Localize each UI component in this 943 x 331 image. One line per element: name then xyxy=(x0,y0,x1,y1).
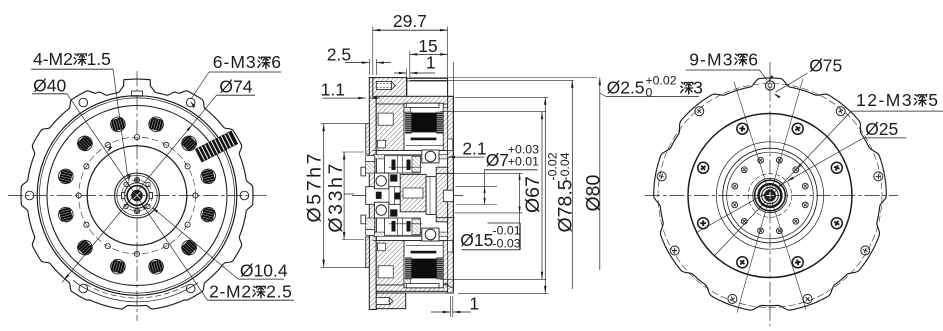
internal edges xyxy=(389,166,422,168)
svg-text:29.7: 29.7 xyxy=(393,11,427,31)
dim Ø57h7 xyxy=(321,123,368,125)
shell bottom band xyxy=(376,285,447,291)
svg-text:Ø40: Ø40 xyxy=(33,75,66,95)
output spline stubs xyxy=(361,167,366,176)
gear row bottom xyxy=(384,218,420,235)
hub circles xyxy=(115,173,160,218)
top bump box xyxy=(373,78,407,97)
body tab ring top xyxy=(407,78,448,96)
dim 29.7 xyxy=(373,29,448,31)
inner circles xyxy=(716,142,823,249)
rotor band bottom xyxy=(373,240,448,242)
shaft exit pocket xyxy=(443,190,453,202)
svg-text:Ø10.4: Ø10.4 xyxy=(240,261,288,281)
shaft O15 column xyxy=(426,177,436,215)
svg-text:9-M3: 9-M3 xyxy=(689,49,733,69)
top bump notch xyxy=(132,91,143,96)
svg-text:0: 0 xyxy=(646,86,653,100)
hub xyxy=(753,178,787,212)
axis centerline xyxy=(352,195,463,197)
left arm bottom xyxy=(376,241,405,285)
dim 1.1 xyxy=(323,97,366,99)
svg-text:Ø2.5: Ø2.5 xyxy=(607,78,645,98)
svg-text:2.5: 2.5 xyxy=(266,281,292,301)
scalloped housing contour xyxy=(21,79,253,309)
hub spline xyxy=(124,183,149,208)
dim 2.5 xyxy=(368,59,370,75)
shaft xyxy=(366,187,444,205)
dim 2.1 xyxy=(448,156,485,158)
2-M2 holes xyxy=(134,177,139,182)
main circle xyxy=(688,114,852,278)
rotor band top xyxy=(373,149,448,151)
bearing right bottom xyxy=(422,228,439,241)
boss ring Ø57 upper xyxy=(366,124,370,154)
svg-text:2.5: 2.5 xyxy=(327,44,351,64)
long leader Ø40 / 2-M2 xyxy=(67,94,208,300)
label Ø15 tol xyxy=(455,172,523,174)
svg-text:6: 6 xyxy=(748,49,759,69)
dashed circle Ø25 xyxy=(748,174,792,218)
center bore xyxy=(132,190,143,201)
right cap plate xyxy=(448,96,454,293)
bearing right top xyxy=(422,150,439,163)
dim 1 top xyxy=(405,69,407,96)
stator winding top xyxy=(404,103,443,150)
dim Ø67 xyxy=(440,111,546,113)
svg-text:4-M2: 4-M2 xyxy=(33,49,73,69)
leader 4-M2 xyxy=(113,69,128,179)
shell top band xyxy=(376,96,447,104)
svg-text:1: 1 xyxy=(469,294,479,314)
motor shell xyxy=(376,96,453,291)
gear row top xyxy=(384,156,420,173)
svg-text:Ø80: Ø80 xyxy=(583,174,605,211)
dashed bolt circle xyxy=(79,137,196,254)
boss ring Ø57 lower xyxy=(366,237,370,267)
flange plate xyxy=(369,78,376,310)
svg-text:5: 5 xyxy=(928,90,939,110)
leader Ø25 xyxy=(696,138,864,233)
svg-text:12-M3: 12-M3 xyxy=(856,90,913,110)
centerlines xyxy=(645,195,898,197)
svg-text:Ø67: Ø67 xyxy=(522,176,544,213)
8 cross screws xyxy=(831,162,842,173)
6 tab screw holes M3 xyxy=(240,191,249,200)
4-M2 holes xyxy=(146,182,150,186)
svg-text:+0.01: +0.01 xyxy=(508,155,539,169)
svg-text:Ø78.5: Ø78.5 xyxy=(555,179,577,232)
svg-text:1.5: 1.5 xyxy=(87,49,111,69)
cap hub xyxy=(436,167,447,222)
svg-text:Ø74: Ø74 xyxy=(219,77,252,97)
svg-text:Ø33h7: Ø33h7 xyxy=(325,161,347,233)
9 tab holes xyxy=(765,81,774,90)
svg-text:Ø57h7: Ø57h7 xyxy=(304,151,326,223)
cap chamfer bottom right xyxy=(445,284,452,288)
bearing left bottom xyxy=(374,202,388,218)
svg-text:3: 3 xyxy=(693,78,703,98)
dim Ø78.5 xyxy=(455,96,548,98)
extension lines top right xyxy=(410,77,597,79)
svg-text:-0.04: -0.04 xyxy=(558,152,572,180)
svg-text:6: 6 xyxy=(271,52,282,72)
dashed bolt arc bottom xyxy=(86,284,188,298)
carrier hatched block xyxy=(400,174,426,211)
dashed circle Ø75 xyxy=(658,84,882,308)
bottom bump box xyxy=(376,293,405,309)
svg-text:Ø15: Ø15 xyxy=(460,230,493,250)
dim Ø33h7 xyxy=(342,151,364,153)
leader 6-M3 xyxy=(191,72,209,99)
circle Ø40 xyxy=(87,146,187,246)
bottom rim inner arc xyxy=(73,280,198,301)
centerline vertical xyxy=(136,71,138,321)
svg-text:-0.03: -0.03 xyxy=(493,236,521,250)
dim 15 xyxy=(410,53,448,55)
svg-text:2-M2: 2-M2 xyxy=(209,281,252,301)
stator winding bottom xyxy=(404,241,443,288)
left arm top xyxy=(376,104,405,150)
svg-text:1.1: 1.1 xyxy=(321,80,345,100)
bearing left top xyxy=(374,173,388,189)
svg-text:Ø7: Ø7 xyxy=(486,150,509,170)
body circles xyxy=(37,96,237,296)
flange pockets xyxy=(366,156,375,162)
12 small holes xyxy=(193,193,198,198)
12 winding view holes xyxy=(199,167,217,185)
leader 12-M3 xyxy=(714,111,851,256)
dim Ø80 xyxy=(599,78,601,270)
long leader Ø74 xyxy=(217,94,256,96)
dark spacers xyxy=(376,192,382,199)
leader Ø10.4 xyxy=(154,209,239,280)
centerline horizontal xyxy=(8,195,268,197)
scalloped contour xyxy=(654,78,887,310)
12 holes xyxy=(802,183,808,189)
cap step notch xyxy=(448,139,453,151)
svg-text:Ø75: Ø75 xyxy=(809,56,842,76)
striped patch xyxy=(195,131,238,163)
svg-text:2.1: 2.1 xyxy=(462,139,486,159)
svg-text:6-M3: 6-M3 xyxy=(213,52,257,72)
dim 1 bottom xyxy=(449,296,451,317)
svg-text:1: 1 xyxy=(426,53,436,73)
svg-text:Ø25: Ø25 xyxy=(865,119,898,139)
